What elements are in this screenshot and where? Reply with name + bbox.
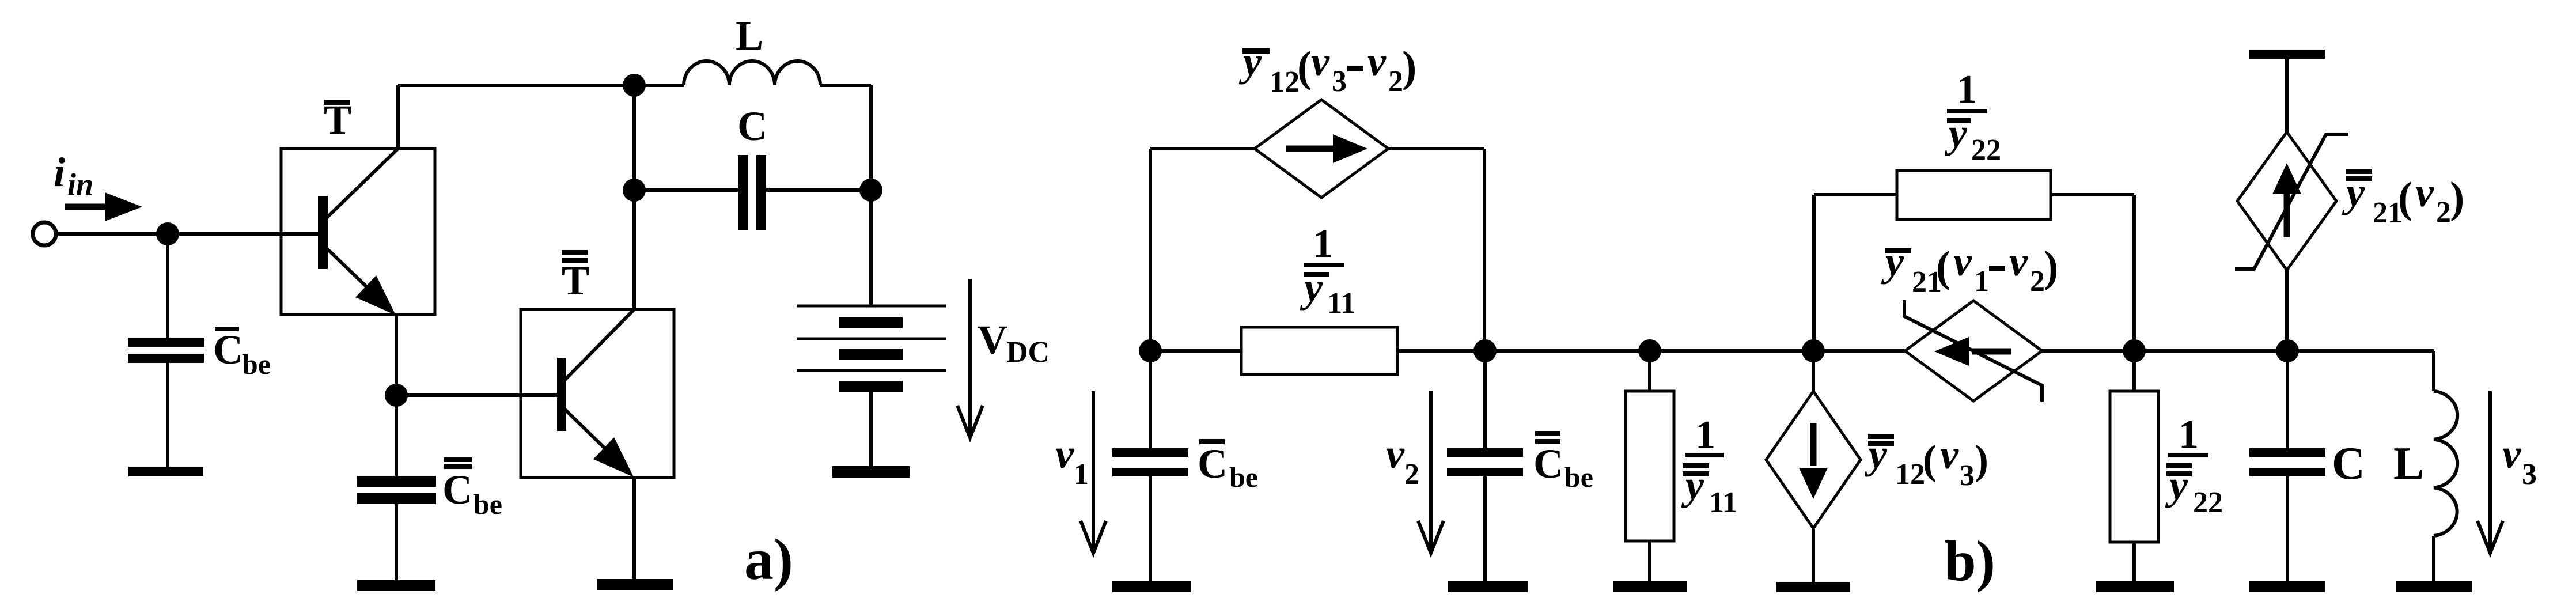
svg-text:a): a) (744, 527, 793, 592)
svg-text:V: V (978, 317, 1007, 363)
svg-text:be: be (242, 348, 271, 380)
svg-text:C: C (442, 467, 472, 513)
svg-text:): ) (1975, 437, 1988, 483)
svg-text:12: 12 (1895, 458, 1925, 491)
svg-text:1: 1 (1695, 413, 1715, 457)
svg-text:2: 2 (2030, 265, 2045, 298)
svg-text:v: v (2009, 239, 2028, 285)
svg-text:1: 1 (1313, 222, 1333, 266)
svg-text:11: 11 (1709, 486, 1737, 519)
svg-text:be: be (473, 488, 502, 520)
svg-text:2: 2 (2436, 196, 2451, 229)
svg-text:v: v (1311, 39, 1330, 85)
svg-text:1: 1 (1074, 458, 1089, 491)
svg-text:1: 1 (1974, 265, 1989, 298)
svg-text:11: 11 (1327, 287, 1355, 320)
svg-text:i: i (54, 149, 65, 195)
svg-text:be: be (1564, 461, 1593, 493)
svg-text:(: ( (1923, 437, 1937, 483)
svg-text:L: L (2393, 438, 2424, 489)
svg-text:T: T (324, 97, 351, 143)
svg-text:C: C (213, 327, 243, 373)
svg-text:L: L (736, 13, 763, 59)
svg-text:12: 12 (1270, 66, 1300, 99)
svg-text:1: 1 (2179, 413, 2199, 457)
svg-text:(: ( (1936, 243, 1950, 291)
svg-text:T: T (562, 258, 589, 304)
svg-text:C: C (1533, 441, 1563, 487)
svg-text:DC: DC (1006, 336, 1050, 369)
svg-text:2: 2 (1404, 458, 1419, 491)
svg-text:): ) (1402, 43, 1416, 91)
svg-text:3: 3 (1960, 459, 1975, 492)
svg-text:2: 2 (1388, 65, 1403, 98)
svg-text:v: v (1386, 431, 1405, 477)
svg-text:C: C (2332, 438, 2365, 489)
svg-text:22: 22 (1971, 134, 2001, 167)
svg-text:be: be (1229, 461, 1258, 493)
svg-text:C: C (737, 103, 767, 149)
svg-text:v: v (1055, 431, 1074, 477)
svg-text:v: v (2502, 431, 2521, 477)
svg-text:(: ( (1297, 43, 1312, 91)
svg-text:v: v (1953, 239, 1972, 285)
svg-text:v: v (1940, 432, 1959, 478)
svg-text:22: 22 (2193, 486, 2223, 519)
svg-text:): ) (2044, 243, 2058, 291)
svg-text:3: 3 (1332, 65, 1347, 98)
svg-text:1: 1 (1957, 67, 1977, 112)
svg-text:v: v (2415, 169, 2434, 215)
svg-text:v: v (1367, 39, 1387, 85)
svg-text:in: in (67, 167, 93, 202)
svg-text:(: ( (2398, 173, 2412, 222)
svg-text:C: C (1198, 441, 1228, 487)
svg-text:): ) (2450, 173, 2464, 222)
svg-text:b): b) (1944, 529, 1995, 593)
svg-text:3: 3 (2522, 458, 2537, 491)
